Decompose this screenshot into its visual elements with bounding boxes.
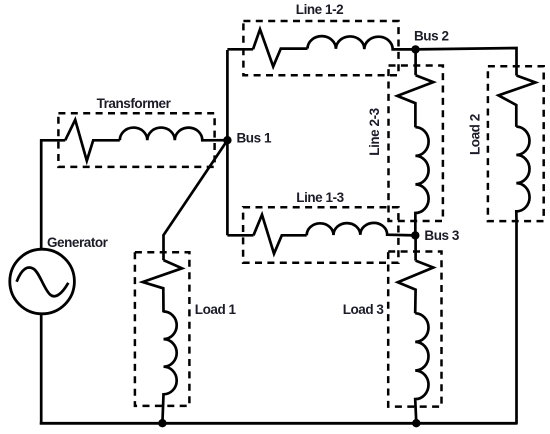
inductor (load 1) (162, 312, 176, 424)
resistor (transformer) (65, 120, 120, 161)
wire: riser to line 1-3 (227, 234, 253, 237)
Line 2-3 box (389, 66, 443, 222)
svg-text:Bus 1: Bus 1 (237, 131, 272, 146)
node load1 bottom (158, 419, 166, 427)
label Load 1 (195, 302, 237, 317)
inductor (load 2) (516, 127, 529, 221)
svg-text:Line 2-3: Line 2-3 (367, 107, 382, 155)
svg-text:Load 2: Load 2 (468, 114, 483, 155)
inductor (line 1-3) (307, 223, 416, 236)
node load3 bottom (412, 419, 420, 427)
svg-text:Line 1-3: Line 1-3 (296, 190, 344, 205)
inductor (line 2-3) (415, 127, 428, 235)
wire: bus1 vertical riser (226, 50, 229, 235)
Load 1 box (135, 252, 190, 406)
resistor (load 2) (499, 76, 536, 127)
resistor (line 1-3) (254, 215, 307, 254)
label Line 2-3 (rotated) (367, 107, 382, 155)
inductor (line 1-2) (308, 36, 416, 49)
svg-text:Bus 2: Bus 2 (414, 29, 449, 44)
svg-text:Line 1-2: Line 1-2 (296, 2, 343, 17)
inductor (load 3) (415, 313, 428, 423)
node Bus 1 (223, 136, 231, 144)
node Bus 3 (411, 231, 419, 239)
wire: transformer input (40, 139, 65, 142)
label Bus 2 (414, 29, 449, 44)
node Bus 2 (411, 45, 419, 53)
label Bus 1 (237, 131, 272, 146)
resistor (load 3) (398, 261, 434, 314)
label Load 2 (rotated) (468, 114, 483, 155)
inductor (transformer) (120, 128, 228, 141)
resistor (load 1) (143, 260, 182, 312)
wire: generator top to transformer (40, 139, 43, 250)
svg-text:Transformer: Transformer (97, 96, 172, 111)
wire: bottom bus (40, 422, 517, 425)
wire: bus2 to load2 (416, 48, 517, 76)
svg-text:Load 1: Load 1 (195, 302, 237, 317)
wire: bus1 to load1 (diagonal) (164, 140, 228, 260)
label Load 3 (343, 302, 385, 317)
wire: generator bottom to bottom bus (40, 314, 43, 422)
transformer box (58, 113, 214, 167)
wire: bus3 down (414, 235, 417, 260)
generator (10, 249, 75, 314)
Load 2 box (488, 66, 544, 221)
resistor (line 2-3) (397, 75, 433, 127)
Line 1-3 box (243, 207, 398, 263)
wire: right vertical (load2 to bottom bus) (515, 221, 518, 425)
wire: riser to line 1-2 (227, 48, 253, 51)
Load 3 box (388, 252, 441, 407)
wire: bus2 down (414, 49, 417, 75)
label Line 1-2 (296, 2, 343, 17)
Line 1-2 box (243, 21, 398, 75)
svg-text:Load 3: Load 3 (343, 302, 385, 317)
label Bus 3 (424, 228, 459, 243)
svg-text:Generator: Generator (47, 235, 109, 250)
resistor (line 1-2) (253, 29, 308, 66)
label Line 1-3 (296, 190, 344, 205)
svg-text:Bus 3: Bus 3 (424, 228, 459, 243)
label Transformer (97, 96, 172, 111)
label Generator (47, 235, 109, 250)
